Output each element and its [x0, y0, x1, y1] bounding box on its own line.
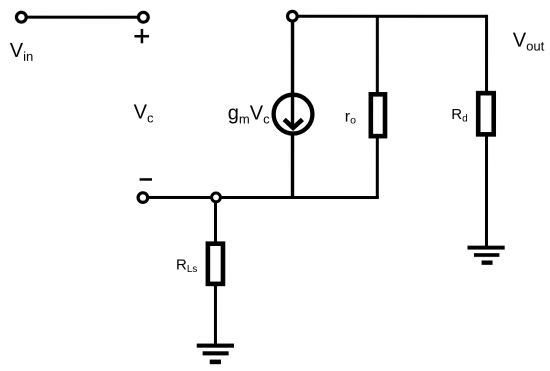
wire: RLs bottom to ground	[214, 285, 217, 345]
wire: node to RLs top	[214, 202, 217, 243]
current source arrowhead	[284, 119, 302, 128]
node: junction to RLs (open circle)	[212, 193, 221, 202]
wire: top node to current source / arrow shaft	[291, 21, 294, 125]
wire: input top wire	[21, 16, 143, 19]
wire: bottom horizontal wire	[143, 196, 379, 199]
ground under Rd	[467, 246, 504, 265]
terminal: Vc bottom (-) terminal	[138, 193, 148, 203]
wire: top wire to ro	[376, 16, 379, 94]
polarity minus sign	[140, 178, 152, 181]
node: top node (open circle)	[288, 11, 298, 21]
resistor RLs	[208, 244, 223, 284]
current source circle gmVc	[274, 95, 313, 134]
wire: ro bottom to bottom wire	[376, 136, 379, 197]
wire: Rd bottom to ground	[485, 134, 488, 247]
polarity plus sign	[134, 29, 149, 43]
terminal: Vin left terminal	[16, 12, 26, 22]
wire: current source bottom to bottom wire	[291, 133, 294, 198]
resistor ro	[371, 94, 385, 136]
ground under RLs	[197, 344, 234, 365]
wire: top wire corner down to Rd	[485, 15, 488, 93]
wire: top horizontal wire	[292, 15, 486, 18]
resistor Rd	[478, 93, 494, 134]
terminal: Vin right terminal (+)	[138, 12, 148, 22]
